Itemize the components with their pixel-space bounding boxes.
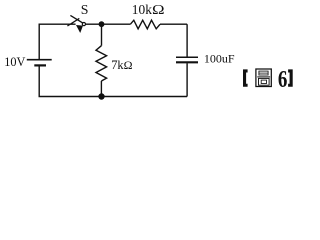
wire resistor R2 to node B <box>100 81 102 97</box>
svg-text:6: 6 <box>278 67 288 93</box>
resistor R1 10k zigzag <box>130 20 160 29</box>
wire left rail upper <box>38 24 40 60</box>
battery V1 short plate <box>34 64 46 66</box>
svg-text:Ω: Ω <box>124 58 133 72</box>
caption left lenticular bracket <box>243 69 248 86</box>
battery V1 long plate <box>27 59 52 61</box>
wire resistor R1 to top-right corner <box>160 23 187 25</box>
wire right rail upper <box>186 24 188 57</box>
caption right lenticular bracket <box>288 69 293 86</box>
wire left rail lower <box>38 65 40 96</box>
svg-text:7k: 7k <box>111 58 124 72</box>
svg-text:S: S <box>81 2 89 17</box>
resistor R2 7k zigzag <box>96 46 107 81</box>
caption CJK glyph bottom inner box <box>259 78 270 85</box>
svg-text:100uF: 100uF <box>204 52 235 66</box>
svg-text:Ω: Ω <box>152 2 165 17</box>
wire node A to resistor R2 <box>101 24 103 46</box>
caption CJK glyph middle line <box>257 76 270 78</box>
caption CJK glyph top inner line <box>259 72 268 74</box>
wire switch to node A <box>85 23 130 25</box>
capacitor C1 bottom plate <box>176 61 198 63</box>
capacitor C1 top plate <box>176 56 198 58</box>
switch S contact circle <box>82 23 85 26</box>
svg-text:10V: 10V <box>4 55 25 69</box>
wire top-left segment <box>39 23 75 25</box>
switch S arrowhead <box>76 25 83 33</box>
wire bottom rail <box>39 96 188 98</box>
switch S blade <box>67 18 79 26</box>
wire right rail lower <box>186 63 188 96</box>
switch S arrow shaft <box>70 15 83 23</box>
caption CJK glyph tu (figure) outer box <box>256 69 271 87</box>
caption CJK glyph bottom small box <box>261 80 266 83</box>
caption CJK glyph top inner box <box>259 71 268 75</box>
node A junction dot <box>99 21 105 27</box>
node B junction dot <box>98 93 104 99</box>
svg-text:10k: 10k <box>132 2 152 17</box>
